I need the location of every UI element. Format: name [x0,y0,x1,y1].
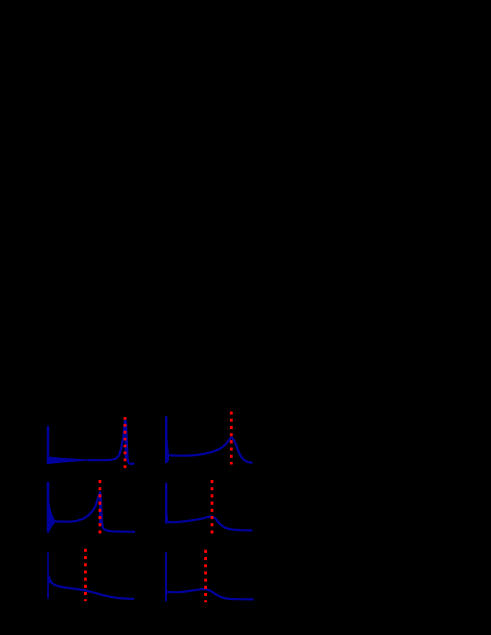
subplot (1,1) top-left [47,417,134,468]
blue impulse spike [165,552,167,601]
blue response curve with tiny bump [167,589,254,599]
red dotted event line [211,480,214,536]
subplot (3,1) bottom-left [48,549,134,601]
blue oscillation bowtie [49,500,55,533]
blue impulse spike [165,483,167,524]
blue spike wedge [49,574,51,585]
blue peak core column [99,494,102,524]
blue response curve with broad peak [167,438,253,463]
blue response curve with resonance peak [88,420,134,464]
subplot (2,1) middle-left [48,480,135,534]
subplot (3,2) bottom-right [166,550,254,603]
red dotted event line [204,550,207,603]
blue impulse spike [47,482,50,533]
blue impulse spike [165,416,167,463]
red dotted event line [84,549,87,601]
blue decaying response curve [49,577,134,599]
subplot (2,2) middle-right [166,480,252,536]
subplot (1,2) top-right [166,412,252,465]
blue impulse spike [47,552,49,599]
red dotted event line [99,480,102,534]
red dotted event line [124,417,127,468]
blue impulse spike [47,426,49,463]
blue response curve with sharp peak [55,492,135,532]
blue peak core column [125,421,127,459]
blue spike widening [167,436,169,463]
blue response curve with gentle bump [167,517,252,531]
red dotted event line [230,412,233,465]
blue spike widening [167,512,168,524]
blue oscillation band [47,456,90,464]
